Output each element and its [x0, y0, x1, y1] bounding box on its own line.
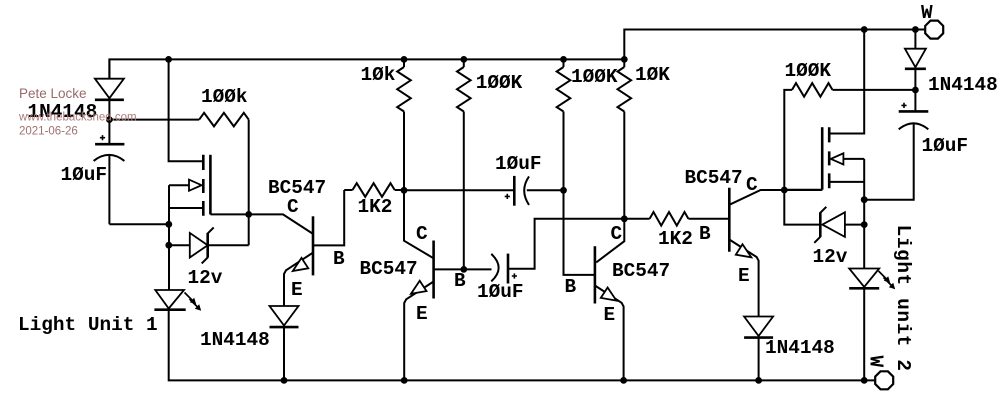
capacitor C 10uF left	[108, 120, 110, 145]
svg-text:Light Unit 1: Light Unit 1	[18, 314, 158, 336]
MOSFET left channel bar (segmented)	[202, 155, 205, 216]
wire right rail of left cell (100k right lead down to zener)	[248, 120, 250, 246]
svg-text:B: B	[454, 270, 466, 292]
svg-text:1ØuF: 1ØuF	[922, 135, 969, 157]
transistor Q3 BC547	[596, 219, 624, 263]
svg-text:Pete Locke: Pete Locke	[19, 86, 87, 101]
transistor Q4 BC547	[728, 188, 731, 252]
node Q2 base / 100K rail	[460, 266, 467, 273]
node gate / 100k rail	[245, 211, 252, 218]
svg-text:1ØØK: 1ØØK	[785, 60, 832, 82]
diode 1N4148 top right	[914, 30, 916, 49]
svg-text:W: W	[865, 356, 887, 368]
node bottom rail / Q3 emitter	[620, 377, 627, 384]
svg-text:B: B	[565, 276, 577, 298]
node bottom rail / 1N4148 left	[281, 377, 288, 384]
node bottom rail / LED2	[861, 377, 868, 384]
svg-text:1N4148: 1N4148	[200, 329, 270, 351]
MOSFET right source stub	[829, 181, 864, 183]
svg-text:B: B	[333, 248, 345, 270]
resistor 10k	[403, 59, 405, 67]
resistor 100K right	[784, 90, 792, 190]
wire MOSFET right source/body down	[863, 159, 865, 269]
node 1K2 / 10k rail / cap	[401, 187, 408, 194]
zener diode 12v left	[169, 244, 190, 246]
node Q4 collector / 100K / gate	[781, 187, 788, 194]
svg-text:12v: 12v	[813, 246, 848, 268]
svg-text:1ØK: 1ØK	[635, 64, 670, 86]
svg-text:1N4148: 1N4148	[928, 74, 998, 96]
transistor Q1 BC547	[249, 214, 313, 234]
svg-text:C: C	[287, 196, 299, 218]
svg-text:1ØuF: 1ØuF	[477, 281, 524, 303]
svg-text:www.thebackshed.com: www.thebackshed.com	[18, 112, 137, 124]
wire MOSFET right gate to Q4 collector node	[784, 189, 822, 191]
capacitor 10uF upper middle	[404, 189, 514, 191]
capacitor 10uF right	[914, 90, 916, 111]
MOSFET right gate bar	[821, 127, 824, 190]
svg-text:BC547: BC547	[360, 258, 418, 280]
svg-text:C: C	[611, 223, 623, 245]
svg-text:12v: 12v	[188, 267, 223, 289]
node diode/cap/100k	[106, 116, 113, 123]
svg-text:E: E	[738, 265, 750, 287]
MOSFET left body arrow	[169, 184, 189, 186]
wire cap bottom to MOSFET source node	[109, 223, 168, 225]
MOSFET left: drain riser from top rail	[169, 59, 204, 161]
svg-text:W: W	[921, 2, 933, 24]
node top rail / right MOSFET riser	[861, 26, 868, 33]
wire stub to W terminal top	[915, 29, 925, 31]
node bottom rail / 1N4148 right	[755, 377, 762, 384]
diode 1N4148 below Q1	[270, 306, 299, 326]
node diode / 100K right	[912, 87, 919, 94]
svg-text:E: E	[291, 279, 303, 301]
resistor 10K second	[623, 59, 625, 67]
MOSFET right: drain riser from top rail	[829, 30, 864, 134]
svg-text:BC547: BC547	[685, 167, 743, 189]
svg-text:1Øk: 1Øk	[361, 64, 396, 86]
diode D 1N4148 top left	[108, 59, 110, 78]
svg-text:C: C	[746, 174, 758, 196]
LED Light Unit 1	[155, 290, 184, 309]
node top rail / 100K	[460, 56, 467, 63]
svg-text:2021-06-26: 2021-06-26	[19, 126, 78, 138]
svg-text:1ØØK: 1ØØK	[476, 72, 523, 94]
capacitor 10uF lower middle	[491, 254, 498, 282]
svg-text:1ØuF: 1ØuF	[495, 153, 542, 175]
svg-text:E: E	[416, 303, 428, 325]
zener diode 12v right	[784, 190, 820, 225]
node 10K rail / 1K2 / Q3 collector	[621, 215, 628, 222]
resistor 100K first	[463, 59, 465, 67]
wire MOSFET left source/body down	[168, 185, 170, 290]
resistor 1K2 left	[353, 183, 395, 197]
svg-text:1N4148: 1N4148	[765, 337, 835, 359]
node right source / zener	[861, 221, 868, 228]
MOSFET right body arrow	[843, 158, 864, 160]
node cap / 100K rail	[560, 187, 567, 194]
node top rail / 10k	[401, 56, 408, 63]
node top rail / 100K second	[560, 56, 567, 63]
MOSFET left gate bar	[209, 155, 212, 215]
svg-text:Light unit 2: Light unit 2	[892, 225, 914, 372]
MOSFET right channel bar (segmented)	[828, 127, 831, 188]
wire top supply rail	[109, 30, 915, 79]
svg-text:1ØØK: 1ØØK	[571, 66, 618, 88]
svg-text:1ØuF: 1ØuF	[61, 164, 108, 186]
LED Light unit 2	[849, 269, 879, 288]
node top rail / 1N4148 right	[912, 26, 919, 33]
resistor 1K2 right	[650, 212, 689, 226]
svg-text:E: E	[604, 304, 616, 326]
node on top rail at left MOSFET drain riser	[165, 56, 172, 63]
resistor 100k	[199, 113, 249, 127]
diode 1N4148 below Q4	[744, 317, 773, 337]
terminal W bottom	[875, 371, 893, 389]
wire MOSFET left gate to right rail	[210, 213, 248, 215]
svg-text:1ØØk: 1ØØk	[201, 86, 248, 108]
transistor Q2 BC547	[404, 190, 434, 258]
svg-text:B: B	[699, 223, 711, 245]
node top rail / 10K corner	[621, 56, 628, 63]
MOSFET left source stub	[169, 207, 203, 209]
svg-text:C: C	[416, 223, 428, 245]
svg-text:1K2: 1K2	[358, 196, 393, 218]
wire bottom return rail	[169, 310, 875, 381]
node right source / cap	[861, 196, 868, 203]
node bottom rail / Q2 emitter	[401, 377, 408, 384]
svg-text:1K2: 1K2	[658, 228, 693, 250]
wire node to 100k resistor	[109, 119, 199, 121]
terminal W top	[925, 21, 943, 39]
resistor 100K second	[563, 59, 565, 67]
svg-text:BC547: BC547	[612, 260, 670, 282]
node source / zener	[165, 242, 172, 249]
node source / cap	[165, 221, 172, 228]
